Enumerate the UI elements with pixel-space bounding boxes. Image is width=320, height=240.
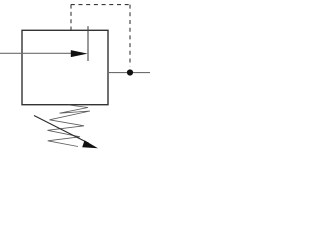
valve body box — [22, 30, 108, 104]
inlet pressure line — [0, 52, 73, 54]
adjustment arrow shaft — [34, 116, 89, 144]
outlet pressure line — [108, 72, 150, 74]
pilot line dashed horizontal — [71, 4, 130, 6]
spring — [48, 105, 91, 147]
valve stem (vertical line) — [87, 26, 89, 61]
junction node — [127, 69, 133, 75]
flow arrow — [71, 50, 88, 57]
pilot line dashed vertical left leg — [70, 5, 72, 30]
pilot line dashed vertical — [129, 5, 131, 67]
adjustment arrow head — [82, 140, 98, 148]
